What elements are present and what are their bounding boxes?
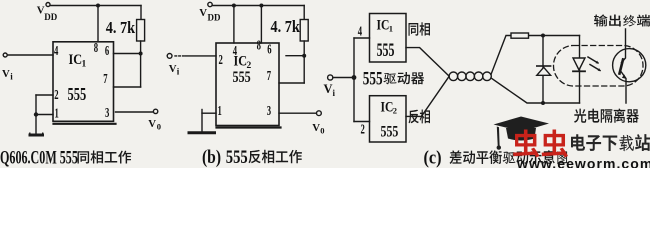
phototransistor emitter (c) bbox=[621, 72, 626, 104]
svg-text:i: i bbox=[333, 88, 336, 98]
wire pin8 drop (b) bbox=[260, 6, 262, 44]
wire pin 7 (b) bbox=[279, 82, 304, 84]
wire IC2 bottom edge thick (b) bbox=[217, 126, 281, 128]
svg-text:3: 3 bbox=[105, 105, 109, 121]
svg-text:IC: IC bbox=[377, 16, 390, 32]
node VDD terminal (a) bbox=[46, 3, 50, 7]
phototransistor base bar (c) bbox=[620, 60, 624, 74]
svg-text:(b): (b) bbox=[202, 146, 221, 167]
label 光电隔离器 (c) bbox=[574, 108, 639, 122]
wire Vi to pin2 (b) bbox=[186, 55, 217, 57]
op-amp IC1 555 box (a) bbox=[53, 42, 114, 122]
caption b CJK 反相工作 bbox=[249, 150, 302, 164]
svg-text:555: 555 bbox=[233, 68, 251, 86]
svg-text:V: V bbox=[2, 68, 10, 80]
svg-text:8: 8 bbox=[94, 40, 98, 56]
light arrows (c) bbox=[588, 57, 600, 71]
ground (a) bbox=[30, 134, 43, 137]
pin 8 bbox=[94, 40, 98, 56]
svg-text:V: V bbox=[324, 82, 333, 96]
svg-text:555: 555 bbox=[377, 41, 395, 61]
pin 2 bbox=[219, 52, 223, 68]
wire pin 6 (a) bbox=[114, 53, 141, 55]
wire IC1 bottom edge thick (a) bbox=[54, 123, 116, 125]
label 同相 (c) bbox=[408, 22, 429, 35]
pin 1 bbox=[218, 103, 222, 119]
junction pin8 drop (b) bbox=[259, 4, 263, 8]
wire resistor bottom to pin7 (a) bbox=[140, 41, 142, 87]
phototransistor Q1 circle (c) bbox=[613, 49, 646, 82]
pin 7 bbox=[103, 71, 107, 87]
ground (b) bbox=[189, 131, 215, 134]
wire trunk to pin4 (c) bbox=[354, 37, 370, 39]
svg-text:1: 1 bbox=[389, 24, 393, 34]
svg-text:DD: DD bbox=[208, 13, 221, 23]
label IC1 top box (c) bbox=[377, 16, 390, 32]
label 4.7k (b) bbox=[271, 18, 301, 36]
svg-text:555: 555 bbox=[226, 146, 248, 167]
junction diode bottom (c) bbox=[541, 101, 545, 105]
pin 3 bbox=[105, 105, 109, 121]
label 反相 (c) bbox=[409, 109, 431, 123]
wire pair to top rail (c) bbox=[491, 36, 580, 75]
driver IC2 box (c) bbox=[370, 96, 407, 142]
wire pin 3 to Vo (b) bbox=[279, 112, 317, 114]
wire Vi to pin4 (a) bbox=[7, 54, 53, 56]
pin 2 bbox=[361, 121, 365, 137]
caption (b) latin bbox=[202, 146, 221, 167]
label IC2 bottom box (c) bbox=[381, 98, 394, 114]
pin 2 bbox=[54, 87, 58, 103]
label 555 (b) bbox=[233, 68, 251, 86]
caption a CJK 同相工作 bbox=[78, 151, 132, 164]
svg-text:4: 4 bbox=[358, 24, 362, 40]
wire resistor top lead (a) bbox=[140, 6, 142, 20]
svg-text:DD: DD bbox=[44, 12, 57, 22]
caption (c) latin bbox=[424, 146, 442, 167]
label IC2 (b) bbox=[234, 52, 248, 68]
label 输出终端 (c) bbox=[594, 14, 650, 26]
pin 8 bbox=[257, 38, 261, 54]
wire pin 7 (a) bbox=[114, 86, 141, 88]
wire bottom box output (c) bbox=[406, 77, 449, 117]
junction Vi trunk (c) bbox=[352, 75, 357, 80]
pin 4 bbox=[233, 43, 237, 59]
node Vi terminal (b) bbox=[167, 54, 172, 59]
svg-text:0: 0 bbox=[157, 122, 161, 132]
wire pin 1 (a) bbox=[36, 114, 53, 116]
svg-text:4. 7k: 4. 7k bbox=[106, 19, 136, 37]
svg-text:6: 6 bbox=[105, 43, 109, 59]
svg-text:1: 1 bbox=[82, 60, 87, 70]
svg-text:IC: IC bbox=[381, 98, 394, 114]
svg-text:i: i bbox=[177, 67, 180, 77]
watermark graduation cap bbox=[494, 117, 550, 150]
pin 7 bbox=[267, 68, 271, 84]
twisted pair (c) bbox=[449, 72, 458, 81]
svg-text:2: 2 bbox=[219, 52, 223, 68]
wire diode branch (c) bbox=[542, 36, 544, 104]
pin 4 bbox=[358, 24, 362, 40]
wire trunk to pin2 (c) bbox=[354, 121, 370, 123]
wire Vi dotted segment (b) bbox=[175, 55, 186, 57]
phototransistor collector lead (c) bbox=[622, 29, 626, 63]
svg-text:i: i bbox=[10, 72, 13, 82]
svg-text:www.eeworm.com: www.eeworm.com bbox=[516, 156, 650, 168]
wire ground branch (a) bbox=[35, 95, 37, 134]
connector bead on top rail (c) bbox=[511, 33, 529, 38]
svg-text:6: 6 bbox=[267, 41, 271, 57]
pin 1 bbox=[55, 105, 59, 121]
svg-text:1: 1 bbox=[55, 105, 59, 121]
wire pin 3 to Vo (a) bbox=[116, 111, 154, 113]
optocoupler dashed case (c) bbox=[554, 46, 644, 87]
svg-text:(c): (c) bbox=[424, 146, 442, 167]
junction pin6 tee (b) bbox=[302, 54, 306, 58]
node Vi terminal (a) bbox=[3, 53, 7, 57]
node Vo terminal (a) bbox=[153, 109, 157, 113]
junction diode top (c) bbox=[541, 34, 545, 38]
label 555 bottom box (c) bbox=[381, 123, 399, 141]
svg-text:4: 4 bbox=[54, 43, 58, 59]
wire trunk vertical (c) bbox=[353, 38, 355, 122]
caption c CJK 差动平衡驱动示意图 bbox=[450, 150, 568, 164]
junction pin6 tee (a) bbox=[139, 52, 143, 56]
wire VDD rail (a) bbox=[50, 5, 141, 7]
wire top box output (c) bbox=[406, 48, 449, 76]
watermark 电子下载站 bbox=[571, 134, 650, 151]
label 555驱动器 CJK bbox=[383, 72, 424, 84]
wire resistor bottom to pin7 (b) bbox=[303, 41, 305, 83]
svg-text:2: 2 bbox=[54, 87, 58, 103]
svg-text:V: V bbox=[312, 122, 320, 134]
wire pin 1 to ground (b) bbox=[202, 112, 216, 114]
pin 6 bbox=[105, 43, 109, 59]
svg-text:3: 3 bbox=[267, 103, 271, 119]
svg-text:Q606.C0M 555: Q606.C0M 555 bbox=[0, 148, 78, 168]
svg-text:4: 4 bbox=[233, 43, 237, 59]
label IC1 (a) bbox=[69, 51, 83, 67]
svg-text:8: 8 bbox=[257, 38, 261, 54]
wire VDD rail (b) bbox=[212, 5, 304, 7]
label 555 top box (c) bbox=[377, 41, 395, 61]
pin 6 bbox=[267, 41, 271, 57]
svg-text:555: 555 bbox=[363, 67, 383, 89]
wire pin8 drop (a) bbox=[97, 6, 99, 42]
svg-text:IC: IC bbox=[69, 51, 83, 67]
junction pin4 drop (b) bbox=[232, 4, 236, 8]
watermark 虫虫 red bbox=[513, 130, 568, 158]
LED D2 of optocoupler (c) bbox=[573, 58, 585, 70]
junction pin1 ground (a) bbox=[34, 112, 38, 116]
svg-text:1: 1 bbox=[218, 103, 222, 119]
caption (a) latin bbox=[0, 148, 78, 168]
label 555 (a) bbox=[68, 85, 87, 105]
label 555 of driver (c) bbox=[363, 67, 383, 89]
junction pin8 drop (a) bbox=[96, 4, 100, 8]
pin 4 bbox=[54, 43, 58, 59]
node VDD terminal (b) bbox=[208, 2, 212, 6]
pin 3 bbox=[267, 103, 271, 119]
svg-text:V: V bbox=[169, 63, 177, 75]
wire Vi to trunk (c) bbox=[333, 77, 354, 79]
svg-text:0: 0 bbox=[320, 126, 324, 136]
svg-text:7: 7 bbox=[267, 68, 271, 84]
wire ground drop (b) bbox=[201, 110, 203, 132]
node Vi terminal (c) bbox=[328, 75, 333, 80]
svg-text:4. 7k: 4. 7k bbox=[271, 18, 301, 36]
driver IC1 box (c) bbox=[370, 14, 407, 63]
svg-text:V: V bbox=[199, 7, 207, 19]
wire pin 2 (a) bbox=[36, 94, 53, 96]
svg-text:7: 7 bbox=[103, 71, 107, 87]
svg-text:555: 555 bbox=[68, 85, 87, 105]
svg-text:2: 2 bbox=[361, 121, 365, 137]
wire pin4 drop (b) bbox=[233, 6, 235, 44]
wire resistor top lead (b) bbox=[303, 6, 305, 20]
op-amp IC2 555 box (b) bbox=[216, 43, 279, 126]
wire pair to bottom rail (c) bbox=[491, 78, 580, 103]
wire pin 6 (b) bbox=[286, 55, 304, 57]
label 4.7k (a) bbox=[106, 19, 136, 37]
resistor R1 4.7k (a) bbox=[137, 20, 145, 42]
wire LED branch (c) bbox=[579, 36, 581, 104]
svg-text:V: V bbox=[148, 118, 156, 130]
resistor R2 4.7k (b) bbox=[300, 20, 308, 42]
svg-text:2: 2 bbox=[393, 106, 397, 116]
node Vo terminal (b) bbox=[317, 111, 322, 116]
svg-text:555: 555 bbox=[381, 123, 399, 141]
diode D1 (c) bbox=[537, 67, 551, 75]
